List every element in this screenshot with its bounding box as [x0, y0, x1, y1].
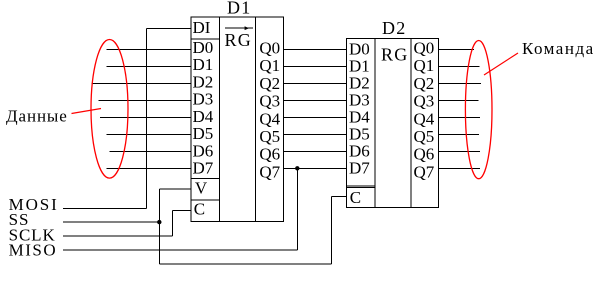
- wire: command output bit 3 from D2.Q3: [438, 99, 478, 101]
- annotation ellipse around command outputs: [465, 41, 492, 179]
- junction dot: SS joins V riser: [157, 220, 161, 224]
- svg-text:Q7: Q7: [259, 162, 280, 181]
- svg-text:Q0: Q0: [259, 39, 280, 58]
- wire: data input bit 2 to D1.D2: [92, 82, 192, 84]
- wire: MISO horizontal segment: [63, 249, 297, 251]
- D1 function label RG with shift-direction arrow: [224, 26, 252, 50]
- svg-text:D7: D7: [349, 159, 370, 178]
- svg-text:Q3: Q3: [414, 92, 435, 111]
- svg-text:C: C: [350, 188, 361, 207]
- svg-text:D7: D7: [193, 159, 214, 178]
- svg-text:Q2: Q2: [259, 74, 280, 93]
- wire: data input bit 3 to D1.D3: [99, 99, 192, 101]
- svg-text:Q1: Q1: [259, 56, 280, 75]
- wire: D1.Q3 to D2.D3: [284, 99, 347, 101]
- wire: command output bit 1 from D2.Q1: [438, 65, 479, 67]
- wire: command output bit 0 from D2.Q0: [438, 48, 474, 50]
- wire: D1.Q7 to D2.D7: [284, 167, 347, 169]
- svg-text:D3: D3: [193, 90, 214, 109]
- svg-text:DI: DI: [193, 18, 211, 37]
- svg-text:D4: D4: [193, 107, 214, 126]
- register D2 body (box with column dividers and C-cell lines): [346, 38, 438, 207]
- wire: D1.Q5 to D2.D5: [284, 133, 347, 135]
- wire: D2.C vertical riser: [330, 196, 332, 264]
- svg-text:Q7: Q7: [414, 162, 435, 181]
- svg-text:D0: D0: [193, 38, 214, 57]
- junction dot: MISO riser joins D1.Q7 wire: [295, 166, 299, 170]
- wire: data input bit 7 to D1.D7: [107, 167, 192, 169]
- svg-text:Команда: Команда: [522, 39, 595, 58]
- svg-text:D6: D6: [193, 141, 214, 160]
- svg-text:Q5: Q5: [414, 127, 435, 146]
- wire: MOSI vertical riser to DI level: [145, 28, 147, 208]
- svg-text:D5: D5: [193, 124, 214, 143]
- svg-text:Q1: Q1: [414, 56, 435, 75]
- register D1 body (box with column dividers and left-column row separators): [191, 17, 283, 221]
- wire: command output bit 7 from D2.Q7: [438, 167, 480, 169]
- wire: command output bit 4 from D2.Q4: [438, 116, 479, 118]
- wire: D1.C pin stub: [172, 210, 191, 212]
- wire: data input bit 1 to D1.D1: [107, 65, 192, 67]
- wire: D1.Q1 to D2.D1: [284, 65, 347, 67]
- svg-text:D2: D2: [382, 18, 406, 38]
- svg-text:C: C: [194, 200, 205, 219]
- wire: MISO vertical riser to Q7 line: [296, 168, 298, 250]
- wire: D1.Q4 to D2.D4: [284, 116, 347, 118]
- wire: command output bit 5 from D2.Q5: [438, 133, 479, 135]
- svg-text:Q0: Q0: [414, 39, 435, 58]
- wire: bottom horizontal run to D2.C riser: [159, 263, 331, 265]
- svg-text:D1: D1: [227, 0, 251, 18]
- wire: data input bit 5 to D1.D5: [107, 133, 192, 135]
- svg-text:D1: D1: [193, 55, 214, 74]
- svg-text:Q2: Q2: [414, 74, 435, 93]
- wire: D1.Q2 to D2.D2: [284, 82, 347, 84]
- wire: SCLK horizontal segment: [63, 235, 172, 237]
- wire: D1.Q6 to D2.D6: [284, 150, 347, 152]
- wire: MOSI horizontal segment: [63, 207, 146, 209]
- svg-text:RG: RG: [224, 30, 251, 50]
- svg-text:D2: D2: [193, 73, 214, 92]
- svg-text:Q3: Q3: [259, 92, 280, 111]
- annotation ellipse around data inputs: [91, 40, 128, 179]
- wire: DI pin stub into D1: [146, 27, 191, 29]
- svg-text:RG: RG: [381, 44, 408, 64]
- wire: SCLK vertical riser to D1.C: [171, 211, 173, 237]
- wire: D2.C pin stub: [331, 195, 346, 197]
- svg-text:Данные: Данные: [6, 106, 68, 125]
- wire: D1.Q0 to D2.D0: [284, 48, 347, 50]
- wire: SS vertical (up to D1.V, down to bottom run): [158, 189, 160, 264]
- leader line from label Команда to ellipse: [484, 53, 518, 75]
- wire: data input bit 4 to D1.D4: [100, 116, 191, 118]
- svg-text:V: V: [195, 178, 208, 197]
- wire: data input bit 0 to D1.D0: [107, 48, 192, 50]
- wire: command output bit 2 from D2.Q2: [438, 82, 481, 84]
- svg-text:Q4: Q4: [414, 109, 435, 128]
- svg-text:Q4: Q4: [259, 109, 280, 128]
- svg-text:Q6: Q6: [259, 145, 280, 164]
- wire: SS horizontal segment: [63, 221, 159, 223]
- svg-text:Q6: Q6: [414, 145, 435, 164]
- wire: D1.V pin stub: [159, 188, 191, 190]
- wire: command output bit 6 from D2.Q6: [438, 150, 480, 152]
- leader line from label Данные to ellipse: [72, 109, 102, 114]
- wire: data input bit 6 to D1.D6: [109, 150, 191, 152]
- svg-text:MISO: MISO: [9, 240, 58, 259]
- svg-text:Q5: Q5: [259, 127, 280, 146]
